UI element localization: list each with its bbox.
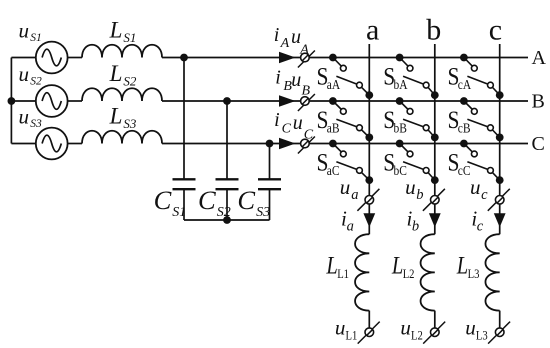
probe u_L2 — [423, 322, 445, 344]
label SaA — [317, 63, 341, 92]
current arrow i_B — [279, 95, 296, 107]
svg-text:S2: S2 — [217, 205, 231, 220]
svg-text:A: A — [299, 43, 309, 58]
wire source bus — [10, 58, 12, 144]
label i_b — [407, 207, 420, 235]
wire line a — [368, 44, 370, 234]
svg-text:S1: S1 — [123, 30, 136, 45]
svg-text:i: i — [275, 66, 281, 88]
svg-text:c: c — [489, 13, 502, 46]
current arrow i_c — [494, 213, 506, 227]
node source bus junction — [7, 97, 15, 105]
probe u_A — [298, 51, 315, 68]
svg-text:a: a — [351, 187, 358, 203]
switch SaC — [329, 140, 373, 184]
probe u_C — [298, 137, 315, 154]
label C_S1 — [154, 185, 187, 220]
label SbC — [383, 149, 407, 178]
wire line B — [162, 100, 528, 102]
svg-text:aC: aC — [327, 163, 340, 178]
svg-text:c: c — [477, 219, 484, 235]
svg-text:C: C — [198, 185, 216, 215]
svg-text:u: u — [19, 105, 30, 129]
svg-text:L: L — [109, 103, 123, 128]
label i_A — [274, 24, 290, 51]
switch SbB — [396, 97, 439, 141]
label u_S1 — [19, 19, 42, 45]
wire C_S1 to cap bus — [183, 189, 185, 220]
node cap branch on line B — [223, 97, 231, 105]
label SbA — [383, 63, 408, 92]
switch ScA — [460, 54, 504, 99]
label u_S3 — [19, 105, 43, 131]
label i_C — [274, 109, 292, 136]
svg-text:B: B — [532, 90, 545, 112]
label u_S2 — [19, 62, 43, 88]
inductor L_L1 — [355, 234, 369, 310]
svg-text:L: L — [109, 61, 123, 86]
svg-text:L3: L3 — [468, 267, 480, 281]
svg-text:S2: S2 — [123, 73, 136, 88]
label u_a — [340, 175, 359, 203]
current arrow i_a — [363, 213, 375, 227]
svg-text:L1: L1 — [346, 329, 358, 343]
wire line b lower — [434, 311, 436, 333]
svg-text:b: b — [416, 187, 423, 203]
svg-text:a: a — [347, 219, 354, 235]
label i_a — [341, 207, 354, 235]
svg-text:S1: S1 — [172, 205, 186, 220]
label L_L2 — [391, 251, 415, 281]
inductor L_L2 — [421, 234, 435, 310]
svg-text:C: C — [237, 185, 255, 215]
svg-text:u: u — [19, 62, 30, 86]
svg-text:S3: S3 — [30, 118, 42, 130]
voltage source u_S2 — [36, 85, 68, 117]
svg-text:u: u — [470, 175, 481, 199]
label ScB — [448, 107, 471, 136]
probe u_B — [298, 94, 315, 111]
svg-text:L2: L2 — [403, 267, 415, 281]
svg-text:a: a — [366, 13, 379, 46]
label A — [532, 47, 547, 69]
wire bus to source u_S3 — [11, 143, 35, 145]
label ScC — [448, 149, 471, 178]
svg-text:u: u — [19, 19, 30, 43]
svg-text:S3: S3 — [123, 116, 136, 131]
svg-text:i: i — [274, 24, 280, 46]
svg-text:bB: bB — [394, 121, 407, 136]
current arrow i_C — [279, 138, 296, 150]
switch SbC — [396, 140, 439, 184]
label u_L1 — [335, 315, 358, 342]
svg-text:b: b — [412, 219, 419, 235]
wire line A — [162, 57, 528, 59]
label u_b — [405, 175, 423, 203]
wire line C — [162, 143, 528, 145]
svg-text:L: L — [326, 251, 338, 278]
svg-text:u: u — [335, 315, 346, 339]
label c — [489, 13, 502, 46]
svg-text:A: A — [280, 36, 290, 51]
svg-text:L2: L2 — [411, 329, 423, 343]
label SbB — [383, 107, 407, 136]
wire source u_S3 to L_S3 — [68, 143, 82, 145]
probe u_a — [357, 189, 379, 211]
current arrow i_b — [429, 213, 441, 227]
switch SaA — [329, 54, 373, 99]
svg-text:L: L — [109, 17, 123, 42]
wire line c lower — [499, 311, 501, 333]
svg-text:S2: S2 — [30, 76, 42, 88]
voltage source u_S3 — [36, 128, 68, 160]
label L_L1 — [326, 251, 350, 281]
label C — [532, 133, 545, 155]
svg-text:L3: L3 — [476, 329, 488, 343]
svg-text:L: L — [391, 251, 403, 278]
svg-text:S1: S1 — [30, 32, 42, 44]
probe u_b — [423, 189, 445, 211]
svg-text:c: c — [481, 187, 488, 203]
wire line B to C_S2 — [226, 101, 228, 179]
wire C_S3 to cap bus — [269, 189, 271, 220]
wire line c — [499, 44, 501, 234]
label u_B — [291, 69, 310, 98]
svg-text:u: u — [291, 69, 301, 91]
label C_S2 — [198, 185, 231, 220]
svg-text:bA: bA — [394, 77, 409, 92]
svg-text:aB: aB — [327, 121, 340, 136]
wire line A to C_S1 — [183, 58, 185, 180]
wire line C to C_S3 — [269, 144, 271, 180]
svg-text:S3: S3 — [256, 205, 270, 220]
inductor L_S2 — [82, 88, 162, 101]
wire C_S2 to cap bus — [226, 189, 228, 220]
label B — [532, 90, 545, 112]
probe u_L3 — [488, 322, 510, 344]
label L_S3 — [109, 103, 137, 131]
svg-text:u: u — [400, 315, 411, 339]
wire line a lower — [368, 311, 370, 333]
label L_S1 — [109, 17, 137, 45]
capacitor C_S1 — [173, 179, 196, 189]
probe u_c — [488, 189, 510, 211]
wire source u_S2 to L_S2 — [68, 100, 82, 102]
voltage source u_S1 — [36, 42, 68, 74]
inductor L_S3 — [82, 131, 162, 144]
capacitor C_S3 — [258, 179, 281, 189]
svg-text:u: u — [293, 112, 303, 134]
svg-text:C: C — [282, 122, 292, 137]
node cap branch on line A — [180, 54, 188, 62]
label u_L2 — [400, 315, 423, 342]
wire source u_S1 to L_S1 — [68, 57, 82, 59]
label a — [366, 13, 379, 46]
current arrow i_A — [279, 52, 296, 64]
svg-text:C: C — [532, 133, 545, 155]
svg-text:u: u — [340, 175, 351, 199]
svg-text:C: C — [154, 185, 172, 215]
label i_c — [471, 207, 483, 235]
svg-text:u: u — [405, 175, 416, 199]
svg-text:b: b — [426, 13, 441, 46]
wire capacitor bus — [184, 219, 270, 221]
label b — [426, 13, 441, 46]
label u_A — [291, 26, 309, 58]
label SaC — [317, 149, 340, 178]
switch ScC — [460, 140, 504, 184]
switch SaB — [329, 97, 373, 141]
label ScA — [448, 63, 472, 92]
label u_c — [470, 175, 488, 203]
svg-text:u: u — [465, 315, 476, 339]
svg-text:C: C — [304, 127, 314, 142]
svg-text:aA: aA — [327, 77, 341, 92]
label u_C — [293, 112, 314, 143]
inductor L_S1 — [82, 45, 162, 58]
svg-text:cB: cB — [458, 121, 471, 136]
capacitor C_S2 — [216, 179, 239, 189]
label i_B — [275, 66, 292, 94]
wire bus to source u_S2 — [11, 100, 35, 102]
svg-text:L1: L1 — [337, 267, 349, 281]
label L_S2 — [109, 61, 137, 89]
switch SbA — [396, 54, 439, 99]
label SaB — [317, 107, 340, 136]
node cap branch on line C — [266, 140, 274, 148]
switch ScB — [460, 97, 504, 141]
svg-text:i: i — [274, 109, 280, 131]
svg-text:cC: cC — [458, 163, 471, 178]
node capacitor bus junction — [223, 216, 231, 224]
label C_S3 — [237, 185, 270, 220]
inductor L_L3 — [485, 234, 499, 310]
label L_L3 — [456, 251, 480, 281]
probe u_L1 — [358, 322, 380, 344]
svg-text:cA: cA — [458, 77, 472, 92]
svg-text:A: A — [532, 47, 547, 69]
wire bus to source u_S1 — [11, 57, 35, 59]
svg-text:B: B — [302, 84, 311, 99]
wire line b — [434, 44, 436, 234]
label u_L3 — [465, 315, 488, 342]
svg-text:L: L — [456, 251, 468, 278]
